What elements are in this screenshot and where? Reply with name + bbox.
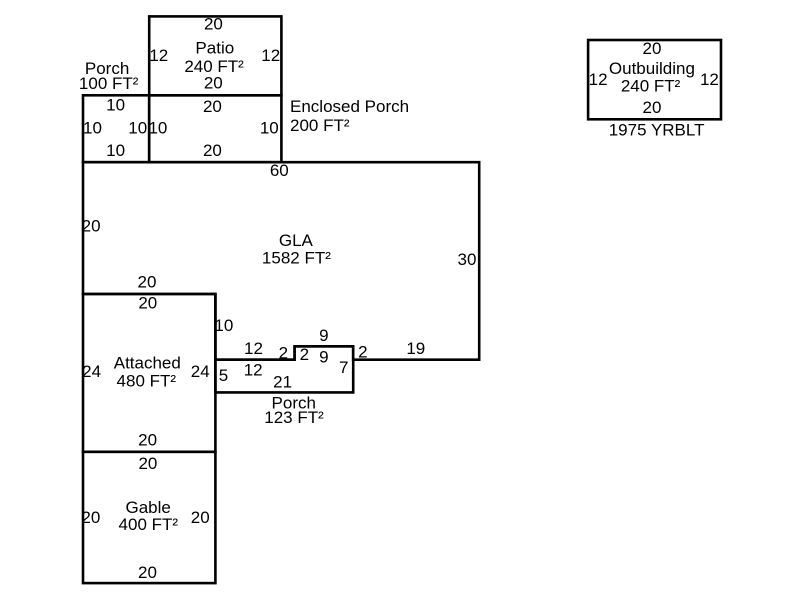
svg-text:20: 20 bbox=[643, 39, 662, 58]
svg-text:12: 12 bbox=[589, 70, 608, 89]
svg-text:20: 20 bbox=[204, 73, 223, 92]
svg-text:1582 FT²: 1582 FT² bbox=[262, 249, 331, 268]
svg-text:Attached: Attached bbox=[114, 354, 181, 373]
svg-text:20: 20 bbox=[203, 97, 222, 116]
svg-text:2: 2 bbox=[358, 343, 367, 362]
svg-text:240 FT²: 240 FT² bbox=[621, 76, 681, 95]
svg-text:20: 20 bbox=[82, 217, 101, 236]
svg-text:10: 10 bbox=[148, 119, 167, 138]
svg-text:400 FT²: 400 FT² bbox=[119, 515, 179, 534]
svg-text:24: 24 bbox=[82, 362, 101, 381]
porch 123 outline bbox=[215, 346, 353, 392]
svg-text:20: 20 bbox=[191, 508, 210, 527]
patio outline bbox=[149, 16, 281, 95]
svg-text:30: 30 bbox=[458, 250, 477, 269]
svg-text:20: 20 bbox=[203, 141, 222, 160]
svg-text:10: 10 bbox=[106, 96, 125, 115]
svg-text:Enclosed Porch: Enclosed Porch bbox=[290, 97, 409, 116]
svg-text:20: 20 bbox=[204, 14, 223, 33]
porch 100 outline bbox=[83, 95, 149, 162]
svg-text:60: 60 bbox=[270, 161, 289, 180]
svg-text:200 FT²: 200 FT² bbox=[290, 116, 350, 135]
svg-text:10: 10 bbox=[83, 119, 102, 138]
svg-text:2: 2 bbox=[300, 345, 309, 364]
svg-text:10: 10 bbox=[260, 119, 279, 138]
svg-text:1975 YRBLT: 1975 YRBLT bbox=[609, 120, 705, 139]
gable outline bbox=[83, 452, 215, 583]
svg-text:20: 20 bbox=[138, 563, 157, 582]
svg-text:20: 20 bbox=[138, 431, 157, 450]
svg-text:100 FT²: 100 FT² bbox=[79, 74, 139, 93]
svg-text:5: 5 bbox=[219, 366, 228, 385]
svg-text:480 FT²: 480 FT² bbox=[117, 371, 177, 390]
GLA outline bbox=[83, 162, 479, 360]
svg-text:20: 20 bbox=[643, 98, 662, 117]
svg-text:2: 2 bbox=[279, 343, 288, 362]
svg-text:Outbuilding: Outbuilding bbox=[609, 59, 695, 78]
svg-text:10: 10 bbox=[128, 119, 147, 138]
svg-text:12: 12 bbox=[244, 339, 263, 358]
svg-text:20: 20 bbox=[138, 273, 157, 292]
svg-text:12: 12 bbox=[261, 46, 280, 65]
svg-text:10: 10 bbox=[214, 316, 233, 335]
svg-text:20: 20 bbox=[138, 454, 157, 473]
svg-text:24: 24 bbox=[191, 362, 210, 381]
outbuilding outline bbox=[588, 40, 721, 119]
svg-text:7: 7 bbox=[339, 358, 348, 377]
svg-text:10: 10 bbox=[106, 141, 125, 160]
svg-text:9: 9 bbox=[319, 326, 328, 345]
svg-text:20: 20 bbox=[138, 294, 157, 313]
attached outline bbox=[83, 294, 215, 452]
svg-text:21: 21 bbox=[273, 372, 292, 391]
svg-text:12: 12 bbox=[149, 46, 168, 65]
svg-text:123 FT²: 123 FT² bbox=[264, 408, 324, 427]
svg-text:19: 19 bbox=[406, 339, 425, 358]
svg-text:20: 20 bbox=[81, 508, 100, 527]
svg-text:GLA: GLA bbox=[279, 231, 314, 250]
enclosed porch outline bbox=[149, 95, 281, 162]
svg-text:9: 9 bbox=[319, 348, 328, 367]
svg-text:Patio: Patio bbox=[195, 38, 234, 57]
svg-text:12: 12 bbox=[244, 360, 263, 379]
svg-text:12: 12 bbox=[700, 70, 719, 89]
